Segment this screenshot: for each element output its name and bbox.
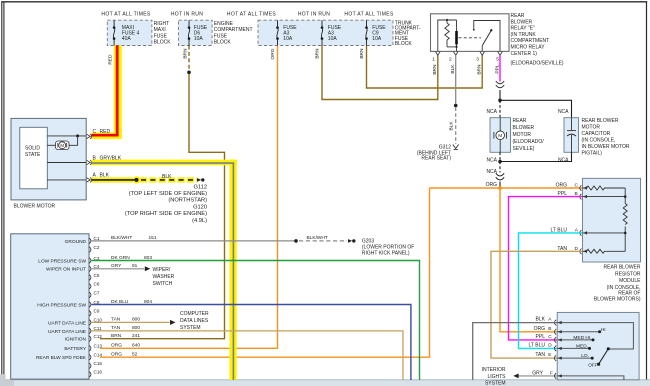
label A BLK (93, 173, 110, 179)
label BLK/WHT 151 (111, 235, 157, 241)
text REAR BLOWER RESISTOR MODULE (IN CONSOLE, REAR OF BLOWER MOTORS) (594, 265, 641, 303)
svg-text:BLOCK: BLOCK (154, 40, 172, 46)
svg-text:ORG: ORG (534, 326, 546, 332)
label BRN relay pin1 (rotated) (432, 64, 438, 75)
pin arcs C1-C16 (89, 238, 91, 377)
wire C3 DK GRN 803 down to bottom (92, 261, 420, 381)
svg-text:1: 1 (432, 57, 435, 63)
svg-text:CAPACITOR: CAPACITOR (582, 131, 611, 137)
svg-text:40A: 40A (122, 36, 132, 42)
switch pin entry arrows (558, 321, 562, 378)
svg-text:DK BLU: DK BLU (111, 299, 129, 305)
svg-text:BLK/WHT: BLK/WHT (111, 235, 132, 241)
blower internal motor symbol (56, 141, 70, 150)
svg-text:10A: 10A (283, 36, 293, 42)
svg-text:C9: C9 (94, 309, 100, 314)
label NCA (motor top) (486, 109, 497, 115)
svg-text:C7: C7 (94, 290, 100, 295)
label NCA (motor bottom) (486, 157, 497, 163)
label HOT IN RUN (trunk fuse A3 #2) (298, 12, 330, 18)
svg-text:C6: C6 (94, 282, 100, 287)
fuse A3 10A symbol (run feed) (321, 20, 324, 45)
label BLK relay pin2 (rotated) (450, 64, 456, 74)
svg-text:BRN: BRN (111, 333, 122, 339)
svg-text:91: 91 (132, 263, 138, 269)
svg-text:RESISTOR: RESISTOR (615, 271, 641, 277)
pin labels C1-C16 (94, 236, 103, 375)
fuse MAXI FUSE 4 40A symbol (113, 20, 116, 45)
svg-text:(LOWER PORTION OF: (LOWER PORTION OF (362, 245, 414, 251)
wire GRY/BLK highlighted (pin B, down to bottom) (92, 160, 237, 380)
label BLK (mid wire) (162, 174, 172, 180)
module pin arcs and letters (575, 183, 588, 255)
svg-text:MODULE: MODULE (619, 278, 641, 284)
svg-text:WIPER/: WIPER/ (153, 267, 171, 273)
label B GRY/BLK (93, 155, 122, 161)
label GRY F (532, 370, 553, 376)
svg-text:TAN: TAN (111, 325, 121, 331)
svg-text:BATTERY: BATTERY (64, 346, 86, 352)
fuse block box: TRUNK COMPARTMENT FUSE BLOCK (258, 20, 393, 45)
wire BLK highlighted (pin A to ground G112) (92, 176, 198, 183)
svg-text:MED HI.: MED HI. (573, 335, 591, 341)
wire C10 TAN 800 to computer data lines (92, 320, 176, 325)
svg-text:FUSE: FUSE (154, 33, 168, 39)
svg-text:LT BLU: LT BLU (529, 342, 546, 348)
svg-text:HIGH PRESSURE SW: HIGH PRESSURE SW (37, 302, 86, 308)
svg-text:SYSTEM: SYSTEM (180, 325, 201, 331)
label TAN (module pin D) (557, 246, 567, 252)
relay box REAR BLOWER RELAY E (431, 14, 510, 52)
svg-text:HOT AT ALL TIMES: HOT AT ALL TIMES (227, 12, 277, 18)
wire C11 TAN 800 down to bottom (92, 331, 404, 380)
svg-text:G112: G112 (194, 184, 208, 190)
label NCA (capacitor top) (558, 109, 569, 115)
svg-text:(TOP LEFT SIDE OF ENGINE): (TOP LEFT SIDE OF ENGINE) (129, 191, 207, 197)
svg-text:800: 800 (132, 325, 140, 331)
label ORG 52 (C14) (111, 352, 138, 358)
svg-text:BRN: BRN (432, 64, 438, 75)
ground G112 arrow symbol (197, 178, 205, 182)
svg-text:NCA: NCA (486, 157, 497, 163)
svg-text:GRY: GRY (532, 370, 543, 376)
svg-text:10A: 10A (372, 36, 382, 42)
label PPL relay pin5 (rotated) (494, 64, 500, 73)
svg-text:DK GRN: DK GRN (111, 255, 130, 261)
page border frame right (646, 2, 648, 380)
svg-text:BLOCK: BLOCK (395, 41, 413, 47)
label PPL (module pin B) (558, 191, 568, 197)
svg-text:LIGHTS: LIGHTS (487, 374, 506, 380)
capacitor symbol (567, 118, 576, 153)
svg-text:MOTOR: MOTOR (513, 132, 532, 138)
svg-text:IGNITION: IGNITION (65, 337, 87, 343)
wire ORG branch down to C14 rear blw spd fdbk (100, 188, 430, 357)
svg-text:G203: G203 (362, 239, 374, 245)
svg-text:SOLID: SOLID (25, 146, 40, 152)
wire C4 GRY 91 to wiper/washer switch (92, 266, 151, 271)
svg-text:PPL: PPL (536, 334, 546, 340)
wire stub below connector (499, 182, 501, 189)
wire TAN module pin D to switch pin E (491, 251, 583, 358)
text G112 G120 ground description (125, 184, 207, 224)
svg-text:E: E (548, 352, 551, 358)
svg-text:G120: G120 (193, 204, 207, 210)
bottom gray bar (0, 380, 650, 386)
svg-text:MOTOR: MOTOR (582, 124, 601, 130)
label ORG (rotated, below fuse A3) (270, 48, 276, 59)
svg-text:(NORTHSTAR): (NORTHSTAR) (168, 198, 207, 204)
svg-text:UART DATA LINE: UART DATA LINE (48, 329, 86, 335)
capacitor box (564, 118, 579, 153)
svg-text:MED.: MED. (576, 343, 588, 349)
svg-text:REAR: REAR (511, 13, 525, 19)
wire C1 BLK/WHT 151 to G203 (92, 239, 356, 243)
ground G312 symbol (453, 145, 459, 150)
svg-text:804: 804 (144, 299, 152, 305)
label HOT AT ALL TIMES (trunk fuse C9) (344, 12, 394, 18)
label ORG 640 (C13) (111, 343, 140, 349)
svg-text:NCA: NCA (486, 109, 497, 115)
svg-text:5: 5 (496, 57, 499, 63)
text REAR BLOWER RELAY E (IN TRUNK COMPARTMENT MICRO RELAY CENTER 1) (511, 13, 564, 66)
switch pin F line to lights (513, 374, 624, 381)
wire ORG node (motor low side) (430, 186, 583, 190)
solid state inner box (20, 127, 48, 189)
switch contact dots (588, 330, 601, 359)
label BLK/WHT (dashed segment) (307, 235, 328, 241)
svg-text:REAR BLOWER: REAR BLOWER (604, 265, 641, 271)
label BRN relay pin3 (rotated) (477, 64, 483, 75)
svg-text:(4.9L): (4.9L) (192, 218, 207, 224)
switch feed rail from pin A (557, 323, 633, 349)
fuse block box: ENGINE COMPARTMENT FUSE BLOCK (179, 20, 213, 45)
text COMPUTER DATA LINES SYSTEM (180, 311, 209, 331)
label HOT AT ALL TIMES (right maxi fuse block) (101, 12, 151, 18)
label C RED (93, 129, 111, 135)
relay fixed contact (pin 5) (473, 21, 500, 52)
text REAR BLOWER MOTOR (ELDORADO/SEVILLE) (513, 118, 545, 152)
svg-text:BLK/WHT: BLK/WHT (307, 235, 328, 241)
svg-text:COMPUTER: COMPUTER (180, 311, 209, 317)
wire PPL module pin B to switch pin C (509, 197, 583, 340)
svg-text:2: 2 (449, 57, 452, 63)
relay mechanical link (dashed) (459, 37, 482, 39)
label BRN (rotated, below fuse C9) (359, 48, 365, 59)
text WIPER/WASHER SWITCH (153, 267, 175, 287)
svg-text:BLK: BLK (449, 121, 455, 131)
svg-text:HOT IN RUN: HOT IN RUN (171, 12, 203, 18)
svg-text:WASHER: WASHER (153, 274, 175, 280)
text TRUNK COMPARTMENT FUSE BLOCK (395, 20, 421, 47)
svg-text:RED: RED (108, 54, 114, 65)
svg-text:SWITCH: SWITCH (153, 281, 173, 287)
svg-text:RED: RED (100, 129, 111, 135)
page border frame left (double line) (1, 2, 3, 375)
label RED (rotated) (108, 54, 114, 65)
text RIGHT MAXI FUSE BLOCK (154, 21, 172, 46)
wire black node at motor bottom (498, 152, 571, 172)
svg-text:3: 3 (476, 57, 479, 63)
text G312 (BEHIND LEFT REAR SEAT) (417, 144, 452, 161)
svg-text:BLOWER MOTOR: BLOWER MOTOR (14, 203, 56, 209)
svg-text:GRY: GRY (111, 263, 122, 269)
label NCA (below motor node) (486, 169, 497, 175)
svg-text:M: M (498, 133, 502, 139)
svg-text:BLOWER: BLOWER (511, 19, 533, 25)
relay pin numbers (432, 57, 499, 63)
svg-text:MICRO RELAY: MICRO RELAY (511, 45, 546, 51)
wire ORG branch down to switch pin B (500, 188, 557, 332)
svg-text:800: 800 (132, 317, 140, 323)
label GRY 91 (111, 263, 138, 269)
label ORG (module pin C) (556, 183, 568, 189)
text REAR BLOWER MOTOR CAPACITOR (IN CONSOLE, IN BLOWER MOTOR PIGTAIL) (582, 118, 630, 157)
svg-text:241: 241 (132, 333, 140, 339)
label BLK (rotated, mid wire) (449, 121, 455, 131)
svg-text:ORG: ORG (556, 183, 568, 189)
wire PPL relay pin5 down (499, 55, 501, 81)
fuse block box: RIGHT MAXI FUSE BLOCK (107, 20, 152, 45)
svg-text:BRN: BRN (314, 48, 320, 59)
svg-text:C: C (548, 334, 552, 340)
page border frame top (1, 1, 647, 3)
switch contact lines (557, 332, 598, 358)
svg-text:BLOWER MOTORS): BLOWER MOTORS) (594, 296, 641, 302)
module box (583, 178, 641, 262)
wire black node at motor top (498, 90, 571, 118)
svg-text:LO.: LO. (581, 353, 589, 359)
blower pin arrows C B A (87, 134, 92, 183)
wire BLK relay pin2 to ground G312 (454, 55, 458, 144)
label NCA (capacitor bottom) (558, 157, 569, 163)
svg-text:RIGHT: RIGHT (154, 21, 170, 27)
wire BRN from fuse C9 to relay pin 3 (367, 46, 483, 89)
label LT BLU (module pin A) (551, 227, 568, 233)
svg-text:(ELDORADO/: (ELDORADO/ (513, 139, 545, 145)
label HOT IN RUN (engine compartment fuse block) (171, 12, 203, 18)
switch box (557, 312, 639, 379)
svg-text:C: C (575, 183, 579, 189)
svg-text:C12: C12 (94, 334, 103, 339)
svg-text:803: 803 (144, 255, 152, 261)
svg-text:BLK: BLK (162, 174, 172, 180)
svg-text:HOT AT ALL TIMES: HOT AT ALL TIMES (101, 12, 151, 18)
svg-text:RIGHT KICK PANEL): RIGHT KICK PANEL) (362, 251, 410, 257)
svg-text:BLK: BLK (536, 317, 546, 323)
text G203 (LOWER PORTION OF RIGHT KICK PANEL) (362, 239, 414, 257)
inline connector on PPL wire (496, 81, 504, 88)
svg-text:HOT IN RUN: HOT IN RUN (298, 12, 330, 18)
switch pin letters and wire color labels (548, 317, 552, 359)
label BRN 241 (C12) (111, 333, 140, 339)
svg-text:NCA: NCA (558, 157, 569, 163)
svg-text:INTERIOR: INTERIOR (482, 367, 506, 373)
label TAN 800 (C10) (111, 317, 140, 323)
svg-text:(IN CONSOLE,: (IN CONSOLE, (582, 137, 616, 143)
svg-text:FUSE: FUSE (214, 33, 228, 39)
svg-text:BLOWER: BLOWER (513, 125, 535, 131)
svg-text:(IN TRUNK: (IN TRUNK (511, 32, 537, 38)
motor symbol M (494, 118, 507, 153)
label HOT AT ALL TIMES (trunk fuse A3) (227, 12, 277, 18)
svg-text:REAR SEAT): REAR SEAT) (421, 156, 451, 162)
blower motor box (11, 118, 86, 199)
fuse D6 10A symbol (188, 20, 191, 45)
svg-text:640: 640 (132, 343, 140, 349)
svg-text:OFF: OFF (588, 363, 598, 369)
svg-text:LOW PRESSURE SW: LOW PRESSURE SW (38, 258, 86, 264)
svg-text:BLOCK: BLOCK (214, 40, 232, 46)
control connector box (11, 234, 89, 379)
svg-text:UART DATA LINE: UART DATA LINE (48, 320, 86, 326)
svg-text:C14: C14 (94, 353, 103, 358)
svg-text:C2: C2 (94, 245, 100, 250)
label BRN (rotated, below fuse D6) (182, 48, 188, 59)
wire ORG from fuse A3 to C13 battery (100, 46, 278, 349)
svg-text:C15: C15 (94, 361, 103, 366)
text INTERIOR LIGHTS SYSTEM (482, 367, 507, 386)
svg-text:151: 151 (149, 235, 157, 241)
relay pin arrows 1 2 3 5 (436, 52, 503, 56)
svg-text:C: C (93, 129, 97, 135)
svg-text:SYSTEM: SYSTEM (485, 380, 506, 386)
svg-text:B: B (548, 326, 551, 332)
svg-text:SEVILLE): SEVILLE) (513, 146, 535, 152)
svg-text:BRN: BRN (182, 48, 188, 59)
wire C8 DK BLU 804 down to bottom (92, 305, 411, 381)
svg-text:BRN: BRN (477, 64, 483, 75)
svg-text:NCA: NCA (558, 109, 569, 115)
svg-text:G312: G312 (439, 144, 451, 150)
svg-text:C13: C13 (94, 344, 103, 349)
relay coil circuit (pin1 to pin2) (438, 19, 458, 52)
svg-text:CENTER 1): CENTER 1) (511, 51, 538, 57)
left function labels (36, 239, 87, 361)
svg-text:IN BLOWER MOTOR: IN BLOWER MOTOR (582, 144, 630, 150)
svg-text:HI: HI (601, 327, 606, 333)
module internal resistors (583, 186, 628, 253)
svg-text:ORG: ORG (111, 352, 122, 358)
svg-text:F: F (550, 370, 553, 376)
svg-text:(TOP RIGHT SIDE OF ENGINE): (TOP RIGHT SIDE OF ENGINE) (125, 211, 207, 217)
wire LT BLU module pin A to switch pin D (519, 233, 583, 349)
svg-text:M: M (60, 143, 64, 148)
svg-text:TAN: TAN (535, 352, 545, 358)
wire BLK switch pin A down to bottom (473, 323, 558, 380)
svg-text:52: 52 (132, 352, 138, 358)
svg-text:10A: 10A (194, 36, 204, 42)
svg-text:RELAY "E": RELAY "E" (511, 26, 535, 32)
label TAN 800 (C11) (111, 325, 140, 331)
switch wiper arm (OFF position) (597, 347, 610, 366)
svg-text:COMPARTMENT: COMPARTMENT (214, 27, 253, 33)
svg-text:PIGTAIL): PIGTAIL) (582, 150, 603, 156)
wire BRN from fuse D6 (dashed splice then to C12 ignition) (100, 46, 225, 339)
svg-text:C5: C5 (94, 273, 100, 278)
svg-text:WIPER ON INPUT: WIPER ON INPUT (46, 267, 86, 273)
svg-text:D: D (548, 342, 552, 348)
svg-text:COMPARTMENT: COMPARTMENT (511, 38, 550, 44)
switch pin arcs (554, 320, 556, 379)
wire BRN from fuse A3#2 to relay pin 1 (322, 46, 438, 100)
svg-text:REAR BLOWER: REAR BLOWER (582, 118, 619, 124)
switch position labels (573, 327, 605, 369)
svg-text:(ELDORADO/SEVILLE): (ELDORADO/SEVILLE) (511, 60, 564, 66)
svg-text:ORG: ORG (111, 343, 122, 349)
motor box REAR BLOWER MOTOR (490, 118, 511, 153)
label BRN (rotated, below fuse A3#2) (314, 48, 320, 59)
svg-text:REAR: REAR (513, 118, 527, 124)
svg-text:BRN: BRN (359, 48, 365, 59)
text BLOWER MOTOR (14, 203, 56, 209)
svg-text:ORG: ORG (270, 48, 276, 59)
fuse A3 10A symbol (battery feed) (276, 20, 279, 45)
label ORG (above orange node) (486, 182, 498, 188)
svg-text:HOT AT ALL TIMES: HOT AT ALL TIMES (344, 12, 394, 18)
svg-text:MAXI: MAXI (154, 27, 166, 33)
inline connector on motor feedback wire (496, 173, 504, 180)
svg-text:TAN: TAN (111, 317, 121, 323)
fuse C9 10A symbol (365, 20, 368, 45)
svg-text:10A: 10A (328, 36, 338, 42)
text ENGINE COMPARTMENT FUSE BLOCK (214, 21, 253, 46)
label DK BLU 804 (111, 299, 152, 305)
svg-text:GROUND: GROUND (65, 239, 87, 245)
svg-text:DATA LINES: DATA LINES (180, 318, 209, 324)
relay switch armature (pin 3) (482, 29, 492, 51)
wire RED highlighted (maxi fuse 4 to blower pin C) (92, 46, 122, 140)
blower internal wiring (47, 134, 86, 180)
svg-text:REAR BLW SPD FDBK: REAR BLW SPD FDBK (36, 355, 87, 361)
svg-text:ENGINE: ENGINE (214, 21, 234, 27)
svg-text:STATE: STATE (25, 152, 41, 158)
label DK GRN 803 (111, 255, 152, 261)
svg-text:C16: C16 (94, 370, 103, 375)
